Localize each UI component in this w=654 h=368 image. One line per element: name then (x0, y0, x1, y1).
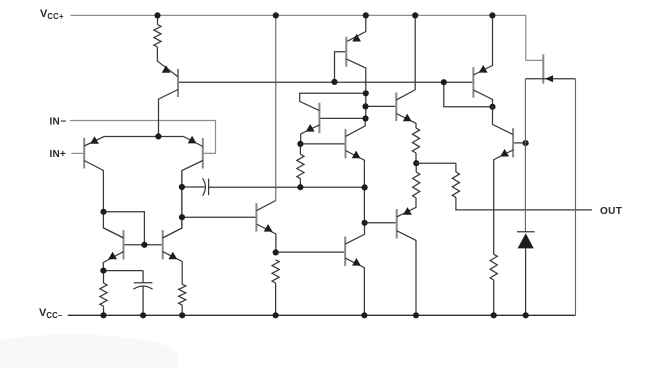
wire to C2 (103, 270, 143, 272)
transistor Q7 bar (318, 103, 320, 133)
node q13 collector (489, 104, 495, 110)
transistor Q2 emitter (84, 137, 158, 147)
node VCC- rail (140, 312, 146, 318)
wire Q15 collector down (524, 79, 526, 232)
capacitor C1 (182, 186, 205, 188)
node mirror-in (100, 209, 106, 215)
transistor Q2 bar (IN+) (83, 138, 85, 169)
node VCC+ rail (363, 12, 369, 18)
wire y163 (416, 162, 456, 164)
transistor Q3 collector (163, 161, 203, 238)
VCC- rail (68, 314, 576, 316)
wire y223 (365, 222, 396, 224)
shadow blob bottom-left (0, 334, 179, 368)
transistor Q4 bar (123, 230, 125, 259)
capacitor C2 (142, 271, 144, 283)
resistor R2 (299, 144, 301, 154)
resistor R8 (272, 260, 279, 283)
transistor Q15 CE wire (525, 78, 575, 80)
transistor Q14 bar (512, 128, 514, 157)
transistor Q12 emitter arrow (403, 207, 412, 215)
svg-text:IN−: IN− (50, 117, 67, 128)
node Q6 emitter (273, 249, 279, 255)
transistor Q12 emitter (397, 198, 416, 217)
transistor Q13 collector (473, 90, 492, 107)
wire OUT (456, 197, 592, 210)
transistor Q6 emitter arrow (264, 224, 273, 232)
node VCC- rail (491, 312, 497, 318)
diode D1 (517, 231, 535, 233)
node VCC+ rail (489, 12, 495, 18)
transistor Q9 emitter (346, 151, 365, 223)
transistor Q14 emitter arrow (500, 149, 509, 157)
transistor Q10 emitter arrow (403, 114, 412, 122)
transistor Q8 emitter arrow (352, 34, 361, 42)
transistor Q14 collector (493, 107, 514, 135)
transistor Q13 emitter arrow (479, 65, 488, 73)
node r2 bottom (297, 184, 303, 190)
node x365 b (362, 103, 368, 109)
transistor Q11 emitter arrow (352, 258, 361, 266)
node VCC- rail (179, 312, 185, 318)
transistor Q7 collector (300, 93, 366, 110)
transistor Q11 emitter (345, 258, 364, 315)
node VCC+ rail (273, 12, 279, 18)
transistor Q14 emitter (494, 150, 513, 254)
transistor Q11 collector (345, 223, 364, 244)
wire mirror bases (125, 244, 162, 246)
svg-text:OUT: OUT (600, 206, 622, 217)
transistor Q15 bar (542, 54, 544, 83)
node cap left (179, 184, 185, 190)
resistor R1 (157, 15, 159, 24)
VCC+ rail (71, 15, 543, 60)
resistor R7 (490, 254, 497, 280)
transistor Q6 collector (256, 201, 275, 211)
transistor Q10 bar (395, 92, 397, 121)
transistor Q2 emitter arrow (90, 136, 99, 144)
resistor R9 (103, 271, 105, 283)
node y82 a (441, 79, 447, 85)
transistor Q1 emitter (157, 47, 178, 77)
wire y217 (182, 216, 255, 218)
transistor Q4 emitter arrow (108, 252, 117, 260)
transistor Q4 emitter (103, 252, 123, 271)
wire mirror top (104, 212, 145, 245)
transistor Q5 emitter (163, 252, 183, 285)
transistor Q9 collector (346, 119, 366, 137)
wire Q3C column (181, 171, 183, 229)
transistor Q6 bar (255, 203, 257, 232)
node tail junction (155, 133, 161, 139)
transistor Q1 bar (177, 69, 179, 97)
node x365 a (363, 90, 369, 96)
transistor Q5 collector (163, 228, 182, 238)
transistor Q4 collector (104, 228, 124, 238)
transistor Q10 base wire (366, 105, 396, 107)
transistor Q8 base (335, 52, 346, 82)
transistor Q8 collector (346, 59, 366, 119)
transistor Q12 bar (396, 209, 398, 238)
svg-text:IN+: IN+ (50, 149, 66, 160)
transistor Q5 bar (162, 230, 164, 259)
node VCC- rail (273, 312, 279, 318)
wire IN+ stub (71, 152, 83, 154)
node r3 r4 (413, 160, 419, 166)
transistor Q8 emitter (347, 15, 366, 41)
transistor Q2 collector (84, 161, 123, 238)
node VCC+ rail (154, 12, 160, 18)
transistor Q3 bar (IN-) (202, 138, 204, 168)
node q9 base (297, 141, 303, 147)
transistor Q9 bar (345, 129, 347, 158)
node VCC- rail (361, 312, 367, 318)
node VCC- rail (100, 312, 106, 318)
transistor Q14 base wire (514, 142, 526, 144)
node mirror-base (141, 242, 147, 248)
resistor R5 (455, 163, 457, 172)
transistor Q6 emitter (256, 224, 276, 252)
node Q4 emitter (100, 268, 106, 274)
transistor Q9 base wire (300, 143, 344, 145)
node q8 base (331, 79, 337, 85)
wire IN- net (70, 121, 216, 154)
transistor Q1 collector (159, 90, 179, 137)
transistor Q3 emitter (158, 137, 202, 147)
transistor Q10 emitter (396, 114, 416, 129)
transistor Q5 emitter arrow (168, 252, 177, 260)
resistor R3 (412, 128, 419, 153)
node VCC- rail (413, 312, 419, 318)
transistor Q1 emitter arrow (162, 65, 171, 73)
node cap right (362, 184, 368, 190)
wire y252 (276, 251, 345, 253)
transistor Q7 emitter (301, 125, 320, 144)
transistor Q8 bar (345, 37, 347, 67)
node q11 collector (362, 220, 368, 226)
node VCC- rail (523, 312, 529, 318)
transistor Q15 emitter arrow (545, 75, 553, 82)
transistor Q9 emitter arrow (352, 151, 361, 159)
transistor Q3 emitter arrow (188, 136, 197, 144)
node VCC+ rail (412, 12, 418, 18)
resistor R10 (179, 284, 186, 305)
transistor Q7 emitter arrow (306, 124, 315, 132)
node y217 (179, 214, 185, 220)
node x365 c (362, 115, 368, 121)
wire Q15 emitter down (575, 79, 577, 316)
wire center column (275, 15, 277, 200)
transistor Q13 emitter (473, 15, 492, 75)
transistor Q10 collector (396, 15, 415, 100)
wire base L (444, 82, 493, 107)
transistor Q13 bar (472, 67, 474, 98)
transistor Q12 collector (397, 231, 416, 316)
resistor R4 (415, 163, 417, 172)
node q14 base (523, 140, 529, 146)
transistor Q7 base wire (320, 117, 365, 119)
transistor Q11 bar (344, 237, 346, 267)
wire base bus y82 (179, 81, 472, 83)
